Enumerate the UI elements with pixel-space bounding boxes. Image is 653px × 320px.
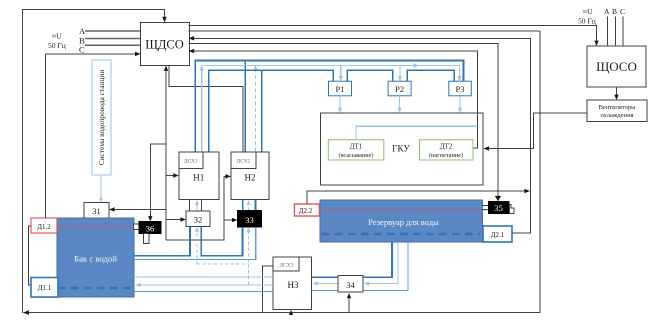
- box pump H2: [231, 152, 269, 200]
- svg-text:А: А: [604, 7, 610, 16]
- wire water system arrow to 31: [99, 175, 103, 203]
- wire 35 left pins: [483, 204, 489, 206]
- svg-text:Н3: Н3: [288, 280, 299, 290]
- wire H3 left control: [263, 266, 274, 313]
- box DSX2: [231, 152, 256, 169]
- svg-text:С: С: [620, 7, 625, 16]
- wire DT2 sensor line inside GKU: [473, 112, 478, 148]
- pipe H3 to bak arrow: [136, 283, 274, 287]
- svg-text:Р2: Р2: [395, 84, 404, 94]
- pipe navy 32 to 33 lower: [201, 226, 242, 255]
- wire branch arrow into H1: [166, 173, 179, 178]
- svg-text:ДТ1: ДТ1: [350, 142, 363, 150]
- box connector 36 left: [133, 224, 139, 230]
- svg-text:А: А: [79, 26, 86, 36]
- wire branch arrow into H2: [224, 174, 231, 179]
- wire SchDSO bottom to DSX2: [169, 66, 243, 152]
- wire 31 feed from control drop: [109, 207, 166, 212]
- blue bus navy2 through contactors: [209, 70, 455, 151]
- svg-text:Н2: Н2: [245, 173, 256, 183]
- box SchDSO: [141, 23, 190, 66]
- pipe dashed 33 arrow down long: [247, 227, 251, 284]
- wire SchDSO right line4 to valve 35: [189, 44, 502, 202]
- svg-text:(нагнетание): (нагнетание): [429, 152, 463, 159]
- box pump H3: [273, 257, 312, 310]
- box 32: [186, 211, 210, 227]
- box tank reservoir: [320, 200, 483, 242]
- pipe reservoir navy down to H3: [312, 242, 392, 277]
- wire branch arrow into 33: [224, 218, 238, 223]
- wire R3 to GKU arrow: [458, 96, 462, 113]
- box pump H1: [179, 152, 219, 200]
- box DT2: [420, 140, 474, 160]
- svg-text:ЩДСО: ЩДСО: [145, 38, 184, 52]
- node C phase line: [79, 45, 141, 55]
- svg-text:≈U: ≈U: [583, 7, 593, 16]
- blue dashed level reservoir: [322, 233, 480, 236]
- pipe medium 33 to bak: [134, 227, 256, 259]
- box 34: [338, 276, 363, 293]
- svg-text:50 Гц: 50 Гц: [578, 17, 596, 26]
- box GKU: [321, 113, 484, 185]
- blue dashed level bak: [58, 287, 131, 290]
- box 33 black: [238, 210, 262, 227]
- box tank bak: [57, 218, 134, 297]
- box D1.2 sensor: [31, 218, 57, 233]
- pipe bak H3 lower: [134, 291, 273, 293]
- svg-text:Система водопровода станции: Система водопровода станции: [97, 70, 106, 166]
- svg-text:≈U: ≈U: [52, 32, 62, 41]
- svg-text:Р1: Р1: [336, 84, 345, 94]
- box R3: [449, 81, 472, 96]
- label U 50Hz left: [48, 32, 66, 51]
- wire SchDSO right line5 from DT sensors into SchDSO: [189, 49, 478, 112]
- svg-text:31: 31: [92, 206, 101, 216]
- pipe reservoir light arrows 34 H3: [313, 242, 398, 286]
- wire H1 32 pins: [190, 200, 202, 211]
- svg-text:Р3: Р3: [456, 84, 465, 94]
- wire branch arrow into 32: [166, 217, 186, 222]
- wire SchDSO right line1 to SchOSO: [189, 26, 599, 47]
- node A phase line: [79, 26, 141, 36]
- pipe dashed 32 arrow: [195, 227, 249, 264]
- wire D1.2 to D1.1: [28, 226, 31, 285]
- wire R2 to GKU arrow: [398, 96, 402, 113]
- svg-text:Д2.2: Д2.2: [299, 207, 313, 215]
- svg-text:36: 36: [146, 223, 155, 233]
- wire D2.2 up loop arrow: [307, 189, 530, 204]
- svg-text:Н1: Н1: [193, 173, 204, 183]
- box DT1: [328, 140, 384, 160]
- svg-text:ДТ2: ДТ2: [440, 142, 453, 150]
- wire SchDSO bottom control drop: [164, 66, 224, 240]
- node B phase line: [79, 36, 141, 46]
- box DSX3: [273, 257, 299, 271]
- svg-text:ДСХ3: ДСХ3: [280, 263, 294, 269]
- wire feed to valve 36: [148, 144, 166, 222]
- box hook right of 35: [510, 205, 515, 214]
- svg-text:ДСХ2: ДСХ2: [237, 159, 251, 165]
- box tab below 36: [143, 234, 149, 244]
- red dotted level D2.2: [319, 209, 488, 211]
- wire R1 to GKU arrow: [338, 96, 342, 113]
- box D2.1 sensor: [483, 226, 512, 242]
- box 31: [84, 203, 109, 218]
- svg-text:С: С: [79, 45, 85, 55]
- wire DT1 internal line: [356, 126, 478, 140]
- svg-text:Резервуар для воды: Резервуар для воды: [368, 217, 439, 227]
- wire bottom bus: [23, 31, 540, 315]
- label U 50Hz right: [578, 7, 596, 26]
- box SchOSO: [587, 46, 646, 87]
- box valve 36 black: [139, 222, 161, 234]
- wire top feedback loop left border: [23, 10, 167, 314]
- wire SchDSO right line3 from D2.1 sensors into SchDSO: [189, 36, 531, 233]
- node A B C right: [604, 7, 625, 46]
- svg-text:35: 35: [494, 203, 503, 213]
- svg-text:34: 34: [346, 280, 355, 290]
- blue bus light with arrows: [200, 63, 462, 151]
- wire sensor feedback into SchDSO left: [46, 52, 141, 218]
- box cooling fans: [587, 100, 647, 122]
- box R1: [329, 81, 352, 96]
- pipe reservoir mblue below 34: [312, 242, 408, 290]
- svg-text:ЩОСО: ЩОСО: [596, 59, 637, 74]
- box valve 35 black: [488, 201, 509, 213]
- svg-text:ГКУ: ГКУ: [392, 144, 410, 154]
- pipe bak H3 upper: [134, 276, 273, 278]
- svg-text:Вентиляторы: Вентиляторы: [599, 104, 637, 111]
- box water system label: [92, 60, 111, 175]
- svg-text:33: 33: [245, 215, 254, 225]
- box D2.2 sensor: [294, 204, 319, 216]
- wire fans to GKU arrow: [484, 113, 588, 151]
- blue bus navy1: [195, 61, 463, 152]
- svg-text:В: В: [612, 7, 617, 16]
- svg-text:Д1.2: Д1.2: [37, 223, 51, 231]
- wire SchOSO to fans arrow: [614, 87, 618, 100]
- wire SchDSO right line2 down right side: [189, 30, 540, 32]
- box R2: [388, 81, 411, 96]
- svg-text:Бак с водой: Бак с водой: [74, 254, 117, 264]
- svg-text:охлаждения: охлаждения: [600, 112, 633, 119]
- svg-text:(всасывание): (всасывание): [338, 152, 373, 159]
- box D1.1 sensor: [31, 278, 58, 298]
- svg-text:Д1.1: Д1.1: [38, 284, 52, 292]
- svg-text:50 Гц: 50 Гц: [48, 41, 66, 50]
- svg-text:32: 32: [194, 214, 203, 224]
- svg-text:ДСХ1: ДСХ1: [184, 159, 198, 165]
- wire H2 33 pins: [243, 200, 256, 211]
- svg-text:Д2.1: Д2.1: [491, 231, 505, 239]
- red dotted level D1.2: [57, 227, 133, 229]
- pipe navy 32 to bak: [134, 226, 190, 255]
- box DSX1: [179, 152, 203, 169]
